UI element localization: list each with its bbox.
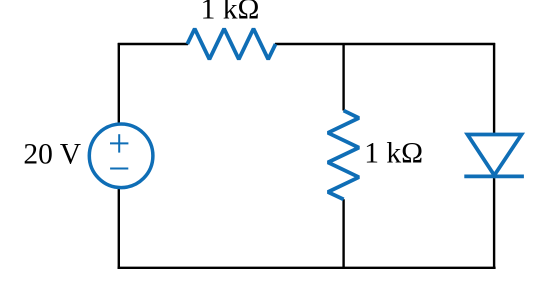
wire right vertical upper — [493, 43, 495, 134]
svg-text:20 V: 20 V — [23, 138, 81, 170]
wire bottom horizontal — [118, 267, 496, 269]
wire top-left horizontal — [118, 43, 188, 45]
wire middle vertical upper — [342, 43, 344, 111]
wire middle vertical lower — [342, 199, 344, 268]
svg-text:1 kΩ: 1 kΩ — [201, 0, 260, 25]
resistor R2 (1 kOhm, middle vertical zigzag) — [328, 111, 359, 200]
wire left vertical lower — [118, 187, 120, 269]
wire right vertical lower — [493, 176, 495, 268]
voltage source V1 circle — [89, 124, 153, 188]
wire top-right horizontal — [275, 43, 495, 45]
voltage source V1 minus sign — [110, 168, 128, 170]
svg-text:1 kΩ: 1 kΩ — [364, 137, 423, 169]
wire left vertical upper — [118, 43, 120, 126]
diode D1 cathode bar — [464, 174, 524, 178]
voltage source V1 plus sign — [110, 134, 128, 152]
resistor R1 (1 kOhm, top horizontal zigzag) — [187, 29, 275, 60]
diode D1 triangle — [468, 135, 522, 176]
